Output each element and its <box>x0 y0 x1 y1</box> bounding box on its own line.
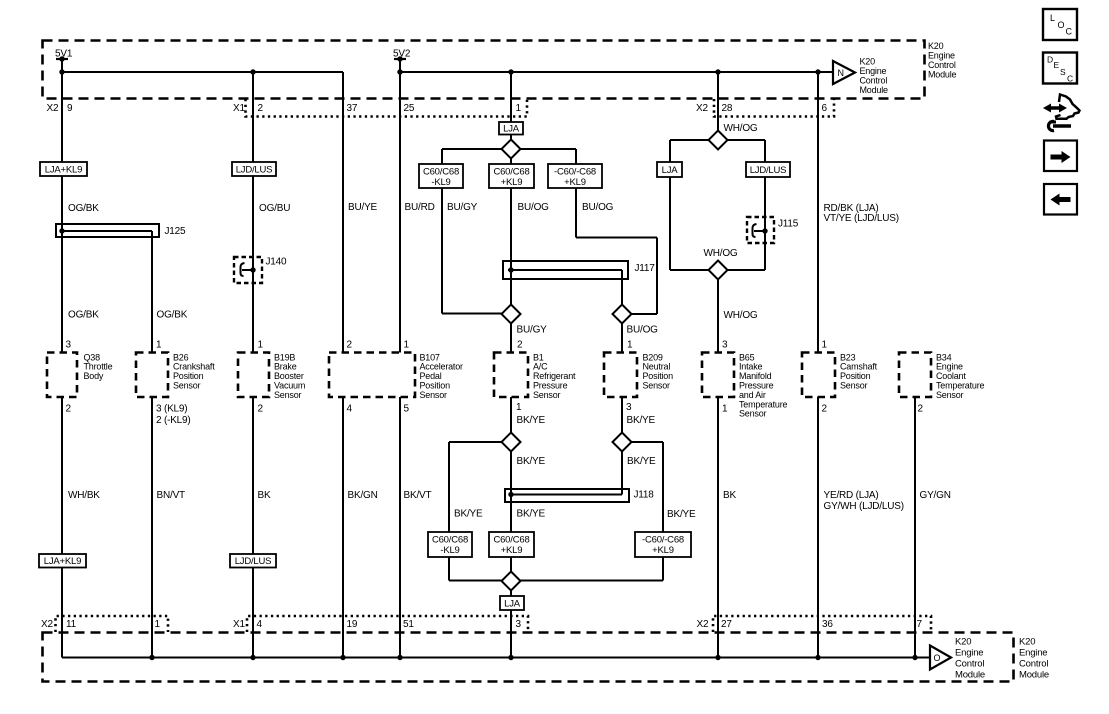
svg-text:Module: Module <box>1019 670 1049 681</box>
svg-text:J117: J117 <box>635 263 656 274</box>
svg-text:1: 1 <box>404 340 410 351</box>
svg-text:VT/YE (LJD/LUS): VT/YE (LJD/LUS) <box>824 213 899 224</box>
svg-text:1: 1 <box>516 402 522 413</box>
svg-text:2: 2 <box>822 404 828 415</box>
svg-text:3: 3 <box>516 619 522 630</box>
svg-text:OG/BK: OG/BK <box>68 310 99 321</box>
svg-text:X1: X1 <box>233 619 245 630</box>
svg-text:S: S <box>1060 67 1066 77</box>
svg-text:1: 1 <box>722 404 728 415</box>
svg-text:37: 37 <box>347 103 358 114</box>
svg-text:BK/YE: BK/YE <box>517 509 546 520</box>
svg-text:Sensor: Sensor <box>533 390 561 400</box>
svg-text:6: 6 <box>822 103 828 114</box>
svg-text:Sensor: Sensor <box>643 381 671 391</box>
svg-text:2: 2 <box>918 404 924 415</box>
svg-text:WH/OG: WH/OG <box>704 248 738 259</box>
svg-text:WH/BK: WH/BK <box>68 490 100 501</box>
svg-text:4: 4 <box>347 404 353 415</box>
svg-text:1: 1 <box>155 619 161 630</box>
svg-text:Sensor: Sensor <box>936 390 964 400</box>
svg-text:Sensor: Sensor <box>840 381 868 391</box>
svg-text:E: E <box>1054 60 1060 70</box>
svg-text:X2: X2 <box>47 103 59 114</box>
svg-text:BK/YE: BK/YE <box>517 456 546 467</box>
svg-text:BU/GY: BU/GY <box>517 325 548 336</box>
svg-text:BK/YE: BK/YE <box>627 415 656 426</box>
svg-text:3 (KL9): 3 (KL9) <box>156 404 187 415</box>
svg-text:36: 36 <box>822 619 833 630</box>
svg-text:BK/YE: BK/YE <box>454 509 483 520</box>
svg-text:X1: X1 <box>233 103 245 114</box>
svg-text:9: 9 <box>67 103 73 114</box>
svg-text:K20: K20 <box>1019 637 1035 648</box>
svg-text:51: 51 <box>403 619 414 630</box>
svg-text:1: 1 <box>258 340 264 351</box>
svg-text:28: 28 <box>722 103 733 114</box>
svg-text:25: 25 <box>404 103 415 114</box>
svg-text:3: 3 <box>626 402 632 413</box>
svg-text:Module: Module <box>860 85 889 95</box>
svg-text:O: O <box>934 653 941 663</box>
svg-text:C60/C68: C60/C68 <box>432 535 468 546</box>
svg-text:BN/VT: BN/VT <box>157 490 186 501</box>
svg-text:L: L <box>1050 13 1055 23</box>
svg-text:27: 27 <box>721 619 732 630</box>
svg-text:Engine: Engine <box>1019 648 1047 659</box>
svg-text:-C60/-C68: -C60/-C68 <box>642 535 684 546</box>
svg-text:BU/RD: BU/RD <box>405 202 435 213</box>
svg-text:K20: K20 <box>860 57 876 67</box>
svg-text:2: 2 <box>66 404 72 415</box>
svg-text:LJA: LJA <box>504 598 521 609</box>
svg-text:Module: Module <box>928 70 957 80</box>
svg-text:BK: BK <box>723 490 736 501</box>
svg-text:K20: K20 <box>955 637 971 648</box>
svg-text:4: 4 <box>257 619 263 630</box>
svg-text:3: 3 <box>66 340 72 351</box>
svg-text:BK/YE: BK/YE <box>627 456 656 467</box>
svg-text:-KL9: -KL9 <box>431 177 450 188</box>
svg-text:5V2: 5V2 <box>393 49 411 60</box>
svg-text:K20: K20 <box>928 41 944 51</box>
svg-text:C: C <box>1067 74 1073 84</box>
svg-text:7: 7 <box>917 619 923 630</box>
svg-text:BK/GN: BK/GN <box>348 490 378 501</box>
svg-text:YE/RD (LJA): YE/RD (LJA) <box>824 490 879 501</box>
svg-text:Engine: Engine <box>955 648 983 659</box>
svg-text:BU/OG: BU/OG <box>627 325 659 336</box>
svg-text:WH/OG: WH/OG <box>724 123 758 134</box>
svg-text:LJA: LJA <box>503 124 520 135</box>
svg-text:LJA+KL9: LJA+KL9 <box>45 164 82 175</box>
svg-text:X2: X2 <box>696 103 708 114</box>
svg-text:BU/GY: BU/GY <box>447 202 478 213</box>
svg-text:C60/C68: C60/C68 <box>493 167 529 178</box>
svg-text:1: 1 <box>822 340 828 351</box>
svg-text:OG/BK: OG/BK <box>157 310 188 321</box>
svg-text:3: 3 <box>722 340 728 351</box>
svg-text:2 (-KL9): 2 (-KL9) <box>156 415 191 426</box>
svg-text:1: 1 <box>516 103 522 114</box>
svg-text:1: 1 <box>627 340 633 351</box>
svg-text:19: 19 <box>347 619 358 630</box>
svg-text:+KL9: +KL9 <box>501 177 523 188</box>
svg-text:OG/BK: OG/BK <box>68 203 99 214</box>
svg-text:Control: Control <box>928 60 956 70</box>
svg-text:C: C <box>1066 27 1073 37</box>
svg-text:O: O <box>1058 20 1065 30</box>
svg-text:X2: X2 <box>697 619 709 630</box>
svg-text:C60/C68: C60/C68 <box>423 167 459 178</box>
svg-text:LJA+KL9: LJA+KL9 <box>44 556 81 567</box>
svg-text:BU/OG: BU/OG <box>582 202 614 213</box>
svg-text:Control: Control <box>1019 659 1048 670</box>
svg-text:2: 2 <box>517 340 523 351</box>
svg-text:Sensor: Sensor <box>274 390 302 400</box>
svg-text:D: D <box>1047 55 1053 65</box>
svg-text:+KL9: +KL9 <box>564 177 586 188</box>
svg-text:BK/VT: BK/VT <box>404 490 432 501</box>
svg-text:BK/YE: BK/YE <box>667 509 696 520</box>
svg-text:Body: Body <box>84 371 104 381</box>
svg-text:BU/OG: BU/OG <box>518 202 550 213</box>
svg-text:2: 2 <box>258 404 264 415</box>
svg-text:LJA: LJA <box>662 165 679 176</box>
svg-text:5V1: 5V1 <box>55 49 73 60</box>
svg-text:+KL9: +KL9 <box>652 545 674 556</box>
svg-text:OG/BU: OG/BU <box>259 203 290 214</box>
svg-text:-KL9: -KL9 <box>440 545 459 556</box>
svg-text:11: 11 <box>66 619 77 630</box>
svg-text:C60/C68: C60/C68 <box>493 535 529 546</box>
svg-text:N: N <box>838 68 845 78</box>
svg-text:Control: Control <box>860 76 888 86</box>
svg-text:BK: BK <box>258 490 271 501</box>
svg-text:5: 5 <box>404 404 410 415</box>
svg-text:1: 1 <box>156 340 162 351</box>
svg-text:J140: J140 <box>266 257 288 268</box>
svg-text:2: 2 <box>258 103 264 114</box>
svg-text:GY/GN: GY/GN <box>920 490 951 501</box>
svg-text:J115: J115 <box>778 219 799 230</box>
svg-text:Sensor: Sensor <box>739 409 767 419</box>
svg-text:J118: J118 <box>634 490 655 501</box>
svg-text:J125: J125 <box>165 226 187 237</box>
svg-text:X2: X2 <box>41 619 53 630</box>
svg-text:BK/YE: BK/YE <box>517 415 546 426</box>
svg-text:LJD/LUS: LJD/LUS <box>750 165 787 176</box>
svg-text:2: 2 <box>347 340 353 351</box>
svg-text:Engine: Engine <box>928 51 955 61</box>
svg-text:Sensor: Sensor <box>420 390 448 400</box>
svg-text:Control: Control <box>955 659 984 670</box>
svg-text:Module: Module <box>955 670 985 681</box>
svg-text:GY/WH (LJD/LUS): GY/WH (LJD/LUS) <box>824 501 904 512</box>
svg-text:LJD/LUS: LJD/LUS <box>235 556 272 567</box>
svg-text:LJD/LUS: LJD/LUS <box>236 164 273 175</box>
svg-text:-C60/-C68: -C60/-C68 <box>554 167 596 178</box>
svg-text:WH/OG: WH/OG <box>724 310 758 321</box>
svg-text:Engine: Engine <box>860 66 887 76</box>
svg-text:+KL9: +KL9 <box>501 545 523 556</box>
svg-text:BU/YE: BU/YE <box>348 202 378 213</box>
svg-text:Sensor: Sensor <box>173 381 201 391</box>
